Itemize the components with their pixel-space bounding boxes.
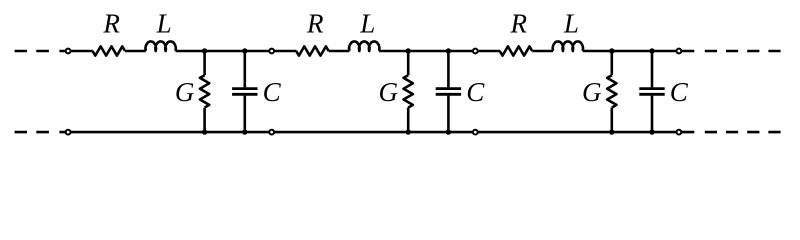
wire: capacitor C2 bottom plate down to bottom rail [447,96,450,133]
svg-text:R: R [102,9,120,39]
junction: G1 branch / top rail [202,48,207,53]
svg-text:C: C [670,77,689,107]
junction: C1 branch / bottom rail [242,129,247,134]
node: open terminal, section 1/2 boundary (bottom rail) [269,130,274,135]
svg-text:C: C [263,77,282,107]
capacitor C2 bottom plate [436,93,461,96]
wire: top rail, section 3 input terminal to resistor R3 [475,50,500,53]
svg-text:G: G [175,77,195,107]
svg-text:L: L [359,9,375,39]
resistor R2 (series) [296,46,328,55]
wire: conductance G3 down to bottom rail [610,108,613,133]
wire: top rail, L1 past shunt junctions to section 1 output terminal [176,50,272,53]
node: open terminal, section 1 input (top rail) [66,49,71,54]
wire: top rail, L2 past shunt junctions to section 2 output terminal [379,50,475,53]
wire: top rail, R2 to L2 [329,50,350,53]
wire: capacitor C3 bottom plate down to bottom rail [651,96,654,133]
node: open terminal, section 2/3 boundary (top rail) [473,49,478,54]
junction: C1 branch / top rail [242,48,247,53]
conductance G2 (shunt resistor, vertical zigzag) [404,75,413,107]
junction: C2 branch / top rail [446,48,451,53]
capacitor C3 top plate [639,87,664,90]
wire: top rail, section 1 input terminal to resistor R1 [68,50,93,53]
wire: shunt branch, top rail down to conductance G2 [407,51,410,75]
junction: C3 branch / bottom rail [649,129,654,134]
resistor R3 (series) [500,46,532,55]
svg-text:C: C [466,77,485,107]
wire: shunt branch, top rail down to capacitor C3 top plate [651,51,654,87]
junction: G1 branch / bottom rail [202,129,207,134]
wire: bottom rail of section 1 [68,131,272,134]
capacitor C3 bottom plate [639,93,664,96]
inductor L1 (series, 3 humps) [146,41,176,51]
wire: top-left dashed continuation lead [15,50,67,53]
wire: bottom rail of section 3 [475,131,679,134]
svg-text:L: L [156,9,172,39]
wire: conductance G1 down to bottom rail [203,108,206,133]
capacitor C1 bottom plate [232,93,257,96]
svg-text:G: G [582,77,602,107]
node: open terminal, section 1 input (bottom rail) [66,130,71,135]
wire: top rail, R3 to L3 [532,50,553,53]
capacitor C1 top plate [232,87,257,90]
wire: top rail, L3 past shunt junctions to section 3 output terminal [583,50,679,53]
wire: bottom-right dashed continuation lead [681,131,781,134]
wire: shunt branch, top rail down to capacitor C2 top plate [447,51,450,87]
node: open terminal, section 3 output (bottom rail) [677,130,682,135]
resistor R1 (series) [93,46,125,55]
wire: shunt branch, top rail down to capacitor C1 top plate [244,51,247,87]
wire: capacitor C1 bottom plate down to bottom rail [244,96,247,133]
wire: shunt branch, top rail down to conductance G3 [610,51,613,75]
wire: top-right dashed continuation lead [681,50,781,53]
junction: G2 branch / top rail [406,48,411,53]
wire: top rail, R1 to L1 [125,50,146,53]
svg-text:R: R [306,9,324,39]
conductance G1 (shunt resistor, vertical zigzag) [200,75,209,107]
wire: conductance G2 down to bottom rail [407,108,410,133]
node: open terminal, section 2/3 boundary (bottom rail) [473,130,478,135]
conductance G3 (shunt resistor, vertical zigzag) [607,75,616,107]
junction: G3 branch / top rail [609,48,614,53]
svg-text:R: R [510,9,528,39]
junction: C2 branch / bottom rail [446,129,451,134]
inductor L2 (series, 3 humps) [349,41,379,51]
capacitor C2 top plate [436,87,461,90]
inductor L3 (series, 3 humps) [553,41,583,51]
node: open terminal, section 1/2 boundary (top rail) [269,49,274,54]
wire: bottom rail of section 2 [272,131,476,134]
wire: bottom-left dashed continuation lead [15,131,67,134]
junction: G3 branch / bottom rail [609,129,614,134]
svg-text:G: G [378,77,398,107]
wire: shunt branch, top rail down to conductance G1 [203,51,206,75]
node: open terminal, section 3 output (top rail) [677,49,682,54]
wire: top rail, section 2 input terminal to resistor R2 [272,50,297,53]
svg-text:L: L [563,9,579,39]
junction: G2 branch / bottom rail [406,129,411,134]
junction: C3 branch / top rail [649,48,654,53]
